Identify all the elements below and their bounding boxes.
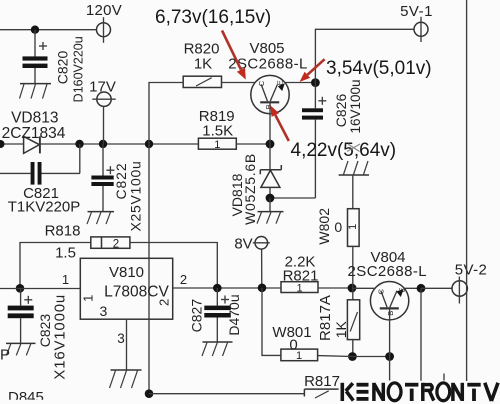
wire V810 pin3 bbox=[126, 319, 128, 370]
junction dot rail bbox=[145, 140, 153, 148]
wire R819 to base node bbox=[236, 143, 270, 145]
svg-text:5V-2: 5V-2 bbox=[455, 262, 487, 279]
resistor R819 bbox=[198, 138, 236, 151]
terminal 120V bbox=[97, 17, 111, 43]
svg-text:W802: W802 bbox=[316, 208, 332, 245]
junction dot 120V/C820 bbox=[31, 26, 39, 34]
junction dot 8V node bbox=[258, 284, 267, 293]
wire to 5V-2 bbox=[421, 287, 452, 289]
wire R821 to collector node bbox=[318, 287, 352, 289]
svg-text:C826: C826 bbox=[333, 94, 349, 128]
diode VD813 bbox=[24, 136, 40, 153]
svg-text:C: C bbox=[376, 288, 385, 294]
svg-text:3,54v(5,01v): 3,54v(5,01v) bbox=[326, 58, 432, 79]
wire V810 input bbox=[0, 288, 80, 290]
svg-text:P: P bbox=[0, 347, 10, 364]
svg-text:X16V1000u: X16V1000u bbox=[51, 294, 68, 380]
svg-text:2: 2 bbox=[113, 238, 119, 250]
svg-text:1: 1 bbox=[62, 272, 69, 287]
svg-text:17V: 17V bbox=[89, 79, 116, 96]
wire emitter drop bbox=[420, 288, 422, 381]
svg-text:T1KV220P: T1KV220P bbox=[8, 199, 81, 216]
chassis ground above W802 bbox=[339, 161, 369, 209]
svg-text:V805: V805 bbox=[249, 40, 284, 57]
junction dot V810 output bbox=[213, 284, 222, 293]
svg-text:C820: C820 bbox=[55, 51, 71, 85]
junction dot V810 input bbox=[16, 284, 25, 293]
svg-text:R817A: R817A bbox=[317, 295, 334, 341]
svg-text:1: 1 bbox=[347, 224, 359, 230]
strike mark over 5,64 bbox=[347, 144, 360, 152]
junction dot zener anode bbox=[266, 194, 275, 203]
ground C823 bbox=[6, 343, 36, 355]
capacitor C827 bbox=[204, 288, 231, 342]
resistor R818 bbox=[20, 237, 217, 288]
junction dot emitter node V805 bbox=[311, 78, 320, 87]
junction dot left edge bbox=[0, 140, 5, 148]
svg-text:2SC2688-L: 2SC2688-L bbox=[348, 263, 428, 280]
wire zener node to C826 bbox=[270, 197, 315, 199]
svg-text:W05Z5.6B: W05Z5.6B bbox=[242, 153, 258, 225]
ground C827 bbox=[202, 342, 233, 356]
zener diode VD818 bbox=[260, 144, 281, 198]
wire 17V node bbox=[41, 143, 199, 145]
wire emitter to 5V-1 bbox=[315, 29, 414, 82]
regulator V810 bbox=[80, 258, 172, 319]
svg-text:0: 0 bbox=[289, 337, 297, 354]
svg-text:1: 1 bbox=[214, 139, 220, 151]
junction dot collector node V804 bbox=[348, 284, 357, 293]
svg-text:16V100u: 16V100u bbox=[348, 79, 363, 133]
svg-text:R821: R821 bbox=[283, 268, 319, 285]
svg-text:0: 0 bbox=[334, 219, 342, 235]
wire bottom return bbox=[149, 393, 304, 395]
svg-text:3: 3 bbox=[100, 303, 108, 319]
svg-text:8V: 8V bbox=[234, 236, 252, 253]
svg-text:2: 2 bbox=[156, 299, 171, 306]
svg-text:X25V100u: X25V100u bbox=[127, 161, 143, 232]
resistor W801 bbox=[262, 288, 352, 362]
svg-text:C: C bbox=[257, 80, 266, 86]
junction dot R817A bottom bbox=[348, 352, 357, 361]
svg-text:2: 2 bbox=[180, 272, 187, 287]
svg-text:E: E bbox=[397, 287, 406, 292]
red arrow 6,73v bbox=[222, 31, 246, 80]
red arrow 4,22v bbox=[270, 105, 289, 141]
watermark KENOTRONTV bbox=[342, 383, 498, 401]
svg-text:VD813: VD813 bbox=[11, 110, 58, 127]
svg-text:120V: 120V bbox=[86, 2, 122, 19]
wire base node V804 bbox=[352, 356, 389, 358]
svg-text:4,22v(5,64v): 4,22v(5,64v) bbox=[291, 140, 397, 161]
transistor V805 bbox=[222, 75, 316, 144]
wire 120V input rail bbox=[0, 29, 97, 31]
svg-text:L7808CV: L7808CV bbox=[104, 284, 169, 301]
svg-text:5V-1: 5V-1 bbox=[400, 3, 433, 20]
junction dot 17V/C822 bbox=[99, 140, 107, 148]
svg-text:D160V220u: D160V220u bbox=[72, 36, 86, 102]
svg-text:D470u: D470u bbox=[226, 294, 242, 335]
resistor R821 bbox=[281, 282, 318, 295]
red arrow 3,54v bbox=[300, 59, 325, 82]
capacitor C823 bbox=[8, 288, 34, 343]
svg-text:D845: D845 bbox=[8, 389, 44, 404]
svg-text:1: 1 bbox=[81, 295, 96, 302]
capacitor C822 bbox=[91, 144, 114, 212]
resistor W802 bbox=[347, 209, 359, 288]
svg-text:R818: R818 bbox=[45, 223, 81, 240]
svg-text:1.5: 1.5 bbox=[55, 245, 76, 262]
wire diode anode bbox=[0, 143, 24, 145]
label D845 cut bbox=[8, 389, 44, 404]
junction dot V804 base bbox=[385, 352, 394, 361]
junction dot rail bottom bbox=[145, 389, 154, 398]
resistor R820 bbox=[183, 76, 221, 87]
ground V810 pin3 bbox=[110, 370, 142, 388]
junction dot C821 riser bbox=[75, 140, 83, 148]
svg-text:B: B bbox=[386, 311, 395, 316]
svg-text:1K: 1K bbox=[194, 56, 212, 73]
junction dot V804 emitter node bbox=[417, 284, 426, 293]
svg-text:E: E bbox=[275, 80, 284, 85]
wire V810 output bbox=[173, 287, 281, 289]
terminal 5V-1 bbox=[414, 17, 428, 42]
svg-text:C827: C827 bbox=[188, 299, 204, 333]
ground C820 bbox=[20, 84, 52, 99]
capacitor C821 bbox=[0, 144, 80, 185]
svg-text:3: 3 bbox=[117, 331, 125, 346]
svg-text:1K: 1K bbox=[333, 320, 349, 338]
ground zener bbox=[257, 198, 284, 224]
resistor R817A bbox=[347, 288, 359, 357]
capacitor C820 bbox=[23, 30, 48, 84]
junction dot base node V805 bbox=[266, 140, 275, 149]
svg-text:6,73v(16,15v): 6,73v(16,15v) bbox=[155, 7, 271, 28]
wire right rail 5V-2 bbox=[466, 0, 468, 381]
resistor R817 bbox=[304, 389, 338, 398]
svg-text:R817: R817 bbox=[304, 373, 340, 390]
wire R820 left rail bbox=[149, 83, 183, 394]
transistor V804 bbox=[352, 282, 421, 381]
svg-text:V810: V810 bbox=[109, 264, 144, 281]
terminal 5V-2 bbox=[452, 277, 467, 304]
wire stub above watermark bbox=[443, 374, 445, 381]
terminal 17V bbox=[92, 92, 115, 144]
svg-text:2CZ1834: 2CZ1834 bbox=[2, 125, 66, 142]
ground C822 bbox=[87, 212, 114, 225]
terminal 8V bbox=[253, 237, 270, 288]
capacitor C826 bbox=[302, 83, 326, 198]
svg-text:1.5K: 1.5K bbox=[202, 123, 233, 140]
